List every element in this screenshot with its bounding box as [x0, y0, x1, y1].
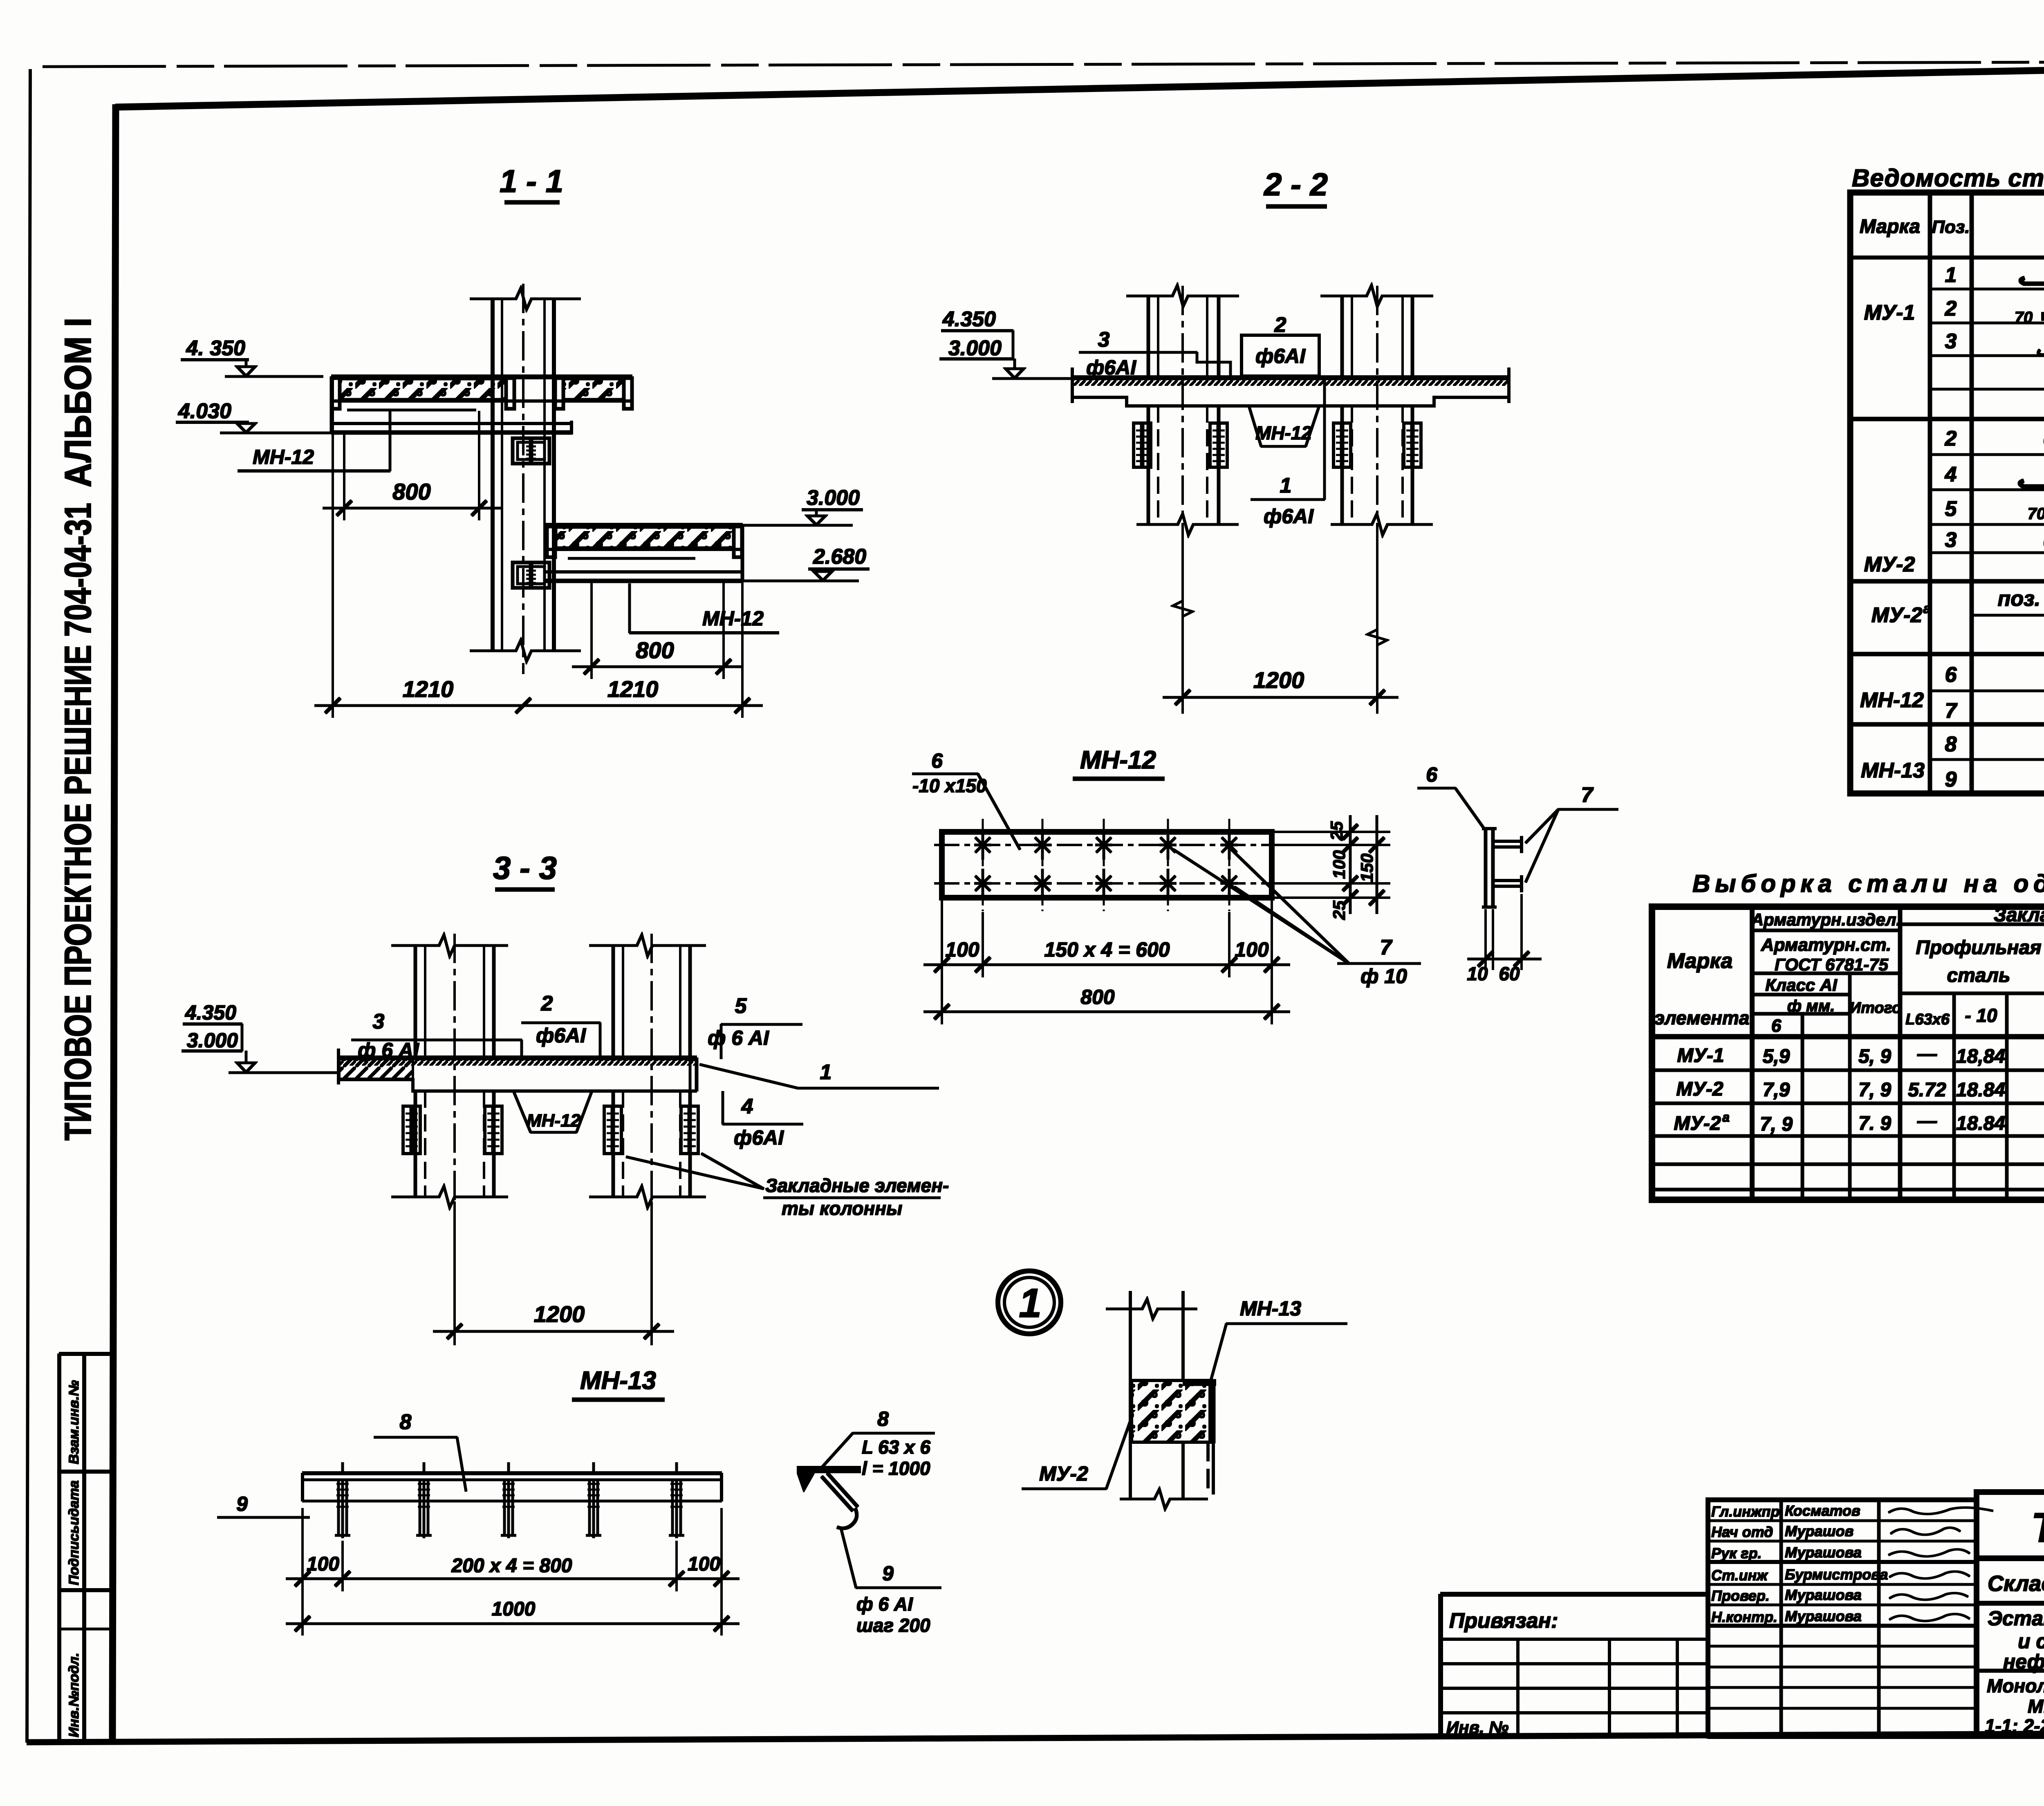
- svg-text:100: 100: [1235, 938, 1269, 961]
- data row lines: [1652, 1069, 2044, 1072]
- node detail column lines: [1129, 1291, 1132, 1499]
- svg-text:200 x 4 = 800: 200 x 4 = 800: [451, 1555, 572, 1577]
- left column above slab: [1147, 295, 1150, 378]
- horizontal header lines: [1900, 923, 2044, 926]
- svg-text:МУ-2: МУ-2: [1039, 1462, 1088, 1485]
- svg-text:МУ-2: МУ-2: [1676, 1078, 1723, 1100]
- svg-text:9: 9: [236, 1492, 248, 1515]
- anchor channels on column faces: [403, 1106, 698, 1154]
- main frame left line: [112, 105, 116, 1741]
- column centerlines: [454, 934, 455, 1345]
- svg-text:6: 6: [1771, 1016, 1782, 1036]
- svg-text:ф 10: ф 10: [1360, 965, 1407, 988]
- svg-text:Ст.инж: Ст.инж: [1711, 1567, 1768, 1584]
- lower slab end plates: [547, 527, 555, 557]
- svg-text:Взам.инв.№: Взам.инв.№: [66, 1380, 82, 1464]
- right column below slab: [1341, 406, 1344, 524]
- svg-text:7: 7: [1380, 936, 1393, 959]
- title block outline: [1974, 1492, 1979, 1736]
- object name band: [1977, 1601, 2044, 1605]
- right column above slab: [1341, 295, 1344, 378]
- anchor channels on column faces: [1134, 423, 1421, 467]
- svg-text:—: —: [1917, 1043, 1937, 1065]
- dim 1210 + 1210: [332, 378, 334, 717]
- svg-text:4.350: 4.350: [185, 1001, 236, 1024]
- vertical lines: [1750, 907, 1754, 1200]
- plate outline: [942, 832, 1272, 898]
- sheet left edge line: [27, 69, 30, 1742]
- svg-text:1200: 1200: [1253, 667, 1304, 693]
- side view bottom dims 10 / 60: [1485, 910, 1486, 970]
- svg-text:L63x6: L63x6: [1905, 1011, 1950, 1028]
- stud column axes: [983, 819, 1229, 911]
- svg-text:8: 8: [1945, 733, 1957, 756]
- svg-text:1210: 1210: [403, 676, 454, 702]
- sheet top edge line: [43, 61, 2044, 67]
- svg-text:7, 9: 7, 9: [1858, 1079, 1891, 1101]
- personnel table: [1708, 1500, 1977, 1736]
- svg-text:ГОСТ 6781-75: ГОСТ 6781-75: [1775, 955, 1889, 974]
- lower slab concrete hatch: [556, 527, 734, 548]
- hatch ticks on hooks: [337, 1484, 682, 1507]
- column top break lines: [392, 935, 508, 956]
- dim 1200: [454, 1202, 455, 1345]
- svg-text:3: 3: [1945, 528, 1957, 552]
- column outline: [491, 298, 494, 651]
- svg-text:800: 800: [392, 479, 430, 504]
- svg-text:МУ-2: МУ-2: [1674, 1113, 1721, 1134]
- anchor studs top row: [975, 831, 1237, 859]
- svg-text:Рук гр.: Рук гр.: [1711, 1545, 1762, 1562]
- МН-12 funnel callout: [1249, 406, 1261, 446]
- svg-text:МН-12: МН-12: [1080, 746, 1156, 774]
- svg-text:3: 3: [373, 1010, 385, 1033]
- svg-text:1210: 1210: [607, 676, 659, 702]
- svg-text:1-1; 2-2; 3-3. МН-12; МН-13: 1-1; 2-2; 3-3. МН-12; МН-13: [1985, 1715, 2044, 1737]
- svg-text:—: —: [1917, 1110, 1937, 1132]
- svg-text:5,9: 5,9: [1763, 1046, 1790, 1067]
- svg-text:а: а: [1923, 601, 1931, 616]
- svg-text:МН-12: МН-12: [1255, 422, 1312, 444]
- dim 1000: [302, 1591, 303, 1635]
- svg-text:2: 2: [1945, 427, 1957, 450]
- svg-text:1200: 1200: [534, 1301, 585, 1327]
- embedded anchor in column (upper): [513, 438, 549, 464]
- slab soffit with drops: [1072, 397, 1509, 406]
- svg-text:18,84: 18,84: [1956, 1046, 2005, 1067]
- svg-text:70: 70: [2015, 309, 2033, 327]
- svg-text:1: 1: [1945, 263, 1957, 287]
- left end concrete hatch: [339, 1059, 413, 1079]
- right vertical dims 25/100/25 and 150: [1273, 831, 1390, 833]
- svg-text:ты колонны: ты колонны: [782, 1198, 902, 1219]
- svg-text:60: 60: [1499, 963, 1520, 984]
- svg-text:3 - 3: 3 - 3: [493, 850, 557, 886]
- dim 800: [941, 977, 943, 1024]
- svg-text:МУ-2: МУ-2: [1871, 603, 1923, 627]
- data rows: [1674, 1043, 2044, 1135]
- anchor studs bottom row: [975, 869, 1237, 898]
- svg-text:Выборка стали на один элем: Выборка стали на один элемент, кг.: [1692, 870, 2044, 897]
- svg-text:4. 350: 4. 350: [186, 336, 245, 360]
- svg-text:2: 2: [541, 992, 553, 1015]
- svg-text:9: 9: [1945, 768, 1957, 791]
- svg-text:1 - 1: 1 - 1: [500, 163, 563, 199]
- column bottom break lines: [1137, 514, 1238, 535]
- svg-text:Гл.инжпр: Гл.инжпр: [1711, 1503, 1780, 1520]
- svg-text:4: 4: [741, 1095, 753, 1118]
- svg-text:МН-12: МН-12: [253, 446, 314, 468]
- extension lines below columns: [1182, 540, 1183, 713]
- svg-text:3.000: 3.000: [948, 336, 1002, 360]
- svg-text:4.030: 4.030: [178, 399, 231, 423]
- svg-text:МН-12: МН-12: [702, 607, 764, 630]
- svg-text:Инв. №: Инв. №: [1446, 1718, 1508, 1737]
- left column below slab: [1147, 406, 1150, 524]
- svg-text:5, 9: 5, 9: [1858, 1046, 1891, 1067]
- svg-text:МУ-2: МУ-2: [1864, 553, 1915, 576]
- column top break lines: [1127, 285, 1239, 307]
- dims 100 / 200x4=800 / 100: [302, 1508, 303, 1591]
- svg-text:2 - 2: 2 - 2: [1263, 166, 1328, 202]
- main frame top line: [116, 64, 2044, 107]
- stub right of column: [554, 422, 572, 425]
- svg-text:ф6АI: ф6АI: [1264, 505, 1314, 528]
- left column above slab: [414, 945, 417, 1058]
- svg-text:Бурмистрова: Бурмистрова: [1785, 1566, 1888, 1583]
- svg-text:10: 10: [1467, 963, 1488, 984]
- svg-text:7, 9: 7, 9: [1760, 1114, 1793, 1135]
- svg-text:Косматов: Косматов: [1785, 1502, 1860, 1519]
- svg-text:Нач отд: Нач отд: [1711, 1524, 1773, 1540]
- svg-text:Итого: Итого: [1850, 999, 1901, 1017]
- svg-text:ф 6 АI: ф 6 АI: [358, 1039, 419, 1062]
- svg-text:и светлых: и светлых: [2018, 1630, 2044, 1653]
- svg-text:2.680: 2.680: [813, 545, 866, 569]
- svg-text:100: 100: [945, 938, 979, 961]
- upper slab top line: [332, 375, 632, 379]
- svg-text:1000: 1000: [492, 1598, 536, 1620]
- upper slab concrete hatch: [340, 379, 506, 399]
- side view plate: [1484, 829, 1487, 907]
- svg-text:Мурашова: Мурашова: [1785, 1586, 1862, 1603]
- privyazan block: [1441, 1592, 1708, 1596]
- svg-text:ф6АI: ф6АI: [536, 1024, 586, 1047]
- svg-text:25: 25: [1327, 821, 1346, 841]
- svg-text:6: 6: [1945, 663, 1957, 687]
- column centerlines: [1182, 286, 1183, 540]
- slab left end tick: [337, 1049, 340, 1084]
- upper slab soffit lines: [332, 400, 632, 402]
- svg-text:Мурашов: Мурашов: [1785, 1523, 1853, 1539]
- svg-text:5: 5: [1945, 497, 1957, 521]
- header texts: [1654, 904, 2044, 1038]
- svg-text:Профильная: Профильная: [1916, 937, 2041, 959]
- TP number box: [1977, 1492, 2044, 1558]
- svg-text:ф 6 АI: ф 6 АI: [708, 1026, 769, 1049]
- svg-text:4: 4: [1945, 463, 1957, 486]
- svg-text:l = 1000: l = 1000: [862, 1458, 930, 1479]
- svg-text:6: 6: [1426, 763, 1438, 786]
- svg-text:МН-13: МН-13: [1861, 759, 1925, 782]
- svg-text:150 x 4 = 600: 150 x 4 = 600: [1044, 938, 1170, 961]
- dims 100 / 150x4=600 / 100: [941, 899, 943, 977]
- svg-text:4.350: 4.350: [942, 307, 996, 331]
- svg-text:7,9: 7,9: [1763, 1079, 1790, 1101]
- svg-text:Инв.№подл.: Инв.№подл.: [66, 1653, 82, 1737]
- table grid: [1850, 193, 2044, 793]
- svg-text:сталь: сталь: [1947, 965, 2010, 986]
- svg-text:2: 2: [1945, 297, 1957, 320]
- svg-text:шаг 200: шаг 200: [856, 1615, 930, 1636]
- angle vertical leg below: [1207, 1442, 1209, 1494]
- svg-text:100: 100: [1329, 850, 1349, 879]
- hook bars: [335, 1463, 684, 1538]
- row axis lines: [935, 844, 1279, 846]
- МН-12 funnel callout: [513, 1091, 531, 1132]
- svg-text:70: 70: [2028, 505, 2044, 523]
- position digits: [1945, 263, 1958, 791]
- svg-text:1: 1: [820, 1060, 832, 1084]
- svg-text:3.000: 3.000: [807, 486, 860, 510]
- svg-text:Мурашова: Мурашова: [1785, 1608, 1862, 1625]
- svg-text:5.72: 5.72: [1908, 1079, 1946, 1101]
- svg-text:6: 6: [931, 749, 943, 772]
- slab soffit with drop: [338, 1080, 697, 1091]
- svg-text:Провер.: Провер.: [1711, 1587, 1770, 1604]
- right column below slab: [612, 1091, 615, 1197]
- svg-text:ТИПОВОЕ ПРОЕКТНОЕ РЕШЕНИЕ 704-: ТИПОВОЕ ПРОЕКТНОЕ РЕШЕНИЕ 704-04-31: [57, 503, 99, 1141]
- svg-text:3: 3: [1098, 328, 1110, 352]
- svg-text:МУ-1: МУ-1: [1864, 301, 1915, 325]
- svg-text:элемента: элемента: [1654, 1007, 1750, 1028]
- side view hooks: [1493, 836, 1522, 853]
- svg-text:9: 9: [882, 1562, 894, 1585]
- node 1 circle marker: [998, 1271, 1061, 1334]
- svg-text:7. 9: 7. 9: [1858, 1113, 1891, 1134]
- slab thin hatch band: [1072, 379, 1509, 385]
- svg-text:Поз.: Поз.: [1932, 217, 1970, 237]
- svg-text:ф 6 АI: ф 6 АI: [856, 1593, 913, 1615]
- svg-text:Класс АI: Класс АI: [1765, 975, 1838, 995]
- svg-text:ф6АI: ф6АI: [1086, 356, 1136, 379]
- svg-text:МН-13: МН-13: [580, 1367, 656, 1395]
- svg-text:Марка: Марка: [1667, 949, 1733, 973]
- svg-text:100: 100: [688, 1553, 720, 1575]
- svg-text:МН-12: МН-12: [1860, 688, 1924, 712]
- svg-text:АЛЬБОМ I: АЛЬБОМ I: [57, 318, 99, 487]
- svg-text:Эстакады для темных: Эстакады для темных: [1988, 1607, 2044, 1630]
- svg-text:3: 3: [1945, 329, 1957, 353]
- svg-text:Монолитные участки МУ-1;: Монолитные участки МУ-1;: [1987, 1675, 2044, 1696]
- svg-text:МУ-2; МУ-2° Сечения: МУ-2; МУ-2° Сечения: [2028, 1696, 2044, 1717]
- svg-text:поз. 2, 3, 4, 5 см. МУ-2: поз. 2, 3, 4, 5 см. МУ-2: [1998, 587, 2044, 611]
- svg-text:L 63 x 6: L 63 x 6: [862, 1436, 930, 1458]
- lower slab soffit lines: [546, 548, 742, 551]
- svg-text:Привязан:: Привязан:: [1449, 1609, 1558, 1633]
- svg-text:7: 7: [1945, 699, 1958, 723]
- svg-text:МН-13: МН-13: [1240, 1297, 1301, 1320]
- svg-text:-10 x150: -10 x150: [912, 775, 987, 796]
- svg-text:8: 8: [877, 1407, 889, 1430]
- svg-text:Марка: Марка: [1860, 216, 1920, 238]
- block bottom line: [1130, 1441, 1213, 1443]
- svg-text:Н.контр.: Н.контр.: [1711, 1609, 1777, 1625]
- svg-text:ф6АI: ф6АI: [1255, 345, 1306, 367]
- svg-text:800: 800: [1080, 986, 1115, 1008]
- svg-text:800: 800: [636, 637, 674, 663]
- svg-text:1: 1: [1280, 474, 1292, 497]
- svg-text:Арматурн.издел.: Арматурн.издел.: [1751, 910, 1901, 929]
- lower slab top line: [546, 523, 742, 527]
- svg-text:МН-12: МН-12: [527, 1111, 581, 1131]
- slab top line: [1072, 376, 1509, 380]
- column top break line: [470, 288, 580, 309]
- column centerline: [522, 284, 524, 674]
- svg-text:25: 25: [1329, 901, 1349, 920]
- svg-text:Склад нефтепродуктов емк. 1тыс: Склад нефтепродуктов емк. 1тыс.куб.м.: [1988, 1571, 2044, 1596]
- svg-text:100: 100: [307, 1553, 339, 1575]
- dim 800 upper: [343, 433, 345, 520]
- column bottom break lines: [392, 1186, 508, 1208]
- svg-text:150: 150: [1357, 854, 1376, 882]
- МН-13 angle section: [1183, 1380, 1216, 1386]
- svg-text:5: 5: [735, 994, 747, 1018]
- svg-text:Ведомость стержней на один: Ведомость стержней на один элемент: [1852, 164, 2044, 192]
- svg-text:- 10: - 10: [1965, 1005, 1997, 1026]
- svg-text:ф6АI: ф6АI: [734, 1126, 784, 1149]
- sheet name box: [1977, 1669, 2044, 1672]
- slab end ticks: [1071, 368, 1074, 403]
- svg-text:1: 1: [1019, 1280, 1042, 1326]
- mark column labels: [1860, 301, 1931, 782]
- dim 800 lower: [591, 582, 592, 679]
- side view angle with hook: [797, 1466, 861, 1473]
- svg-text:7: 7: [1581, 783, 1594, 807]
- upper slab end plates: [332, 378, 340, 409]
- svg-text:МУ-1: МУ-1: [1677, 1045, 1724, 1067]
- svg-text:Закладные элемен-: Закладные элемен-: [765, 1175, 949, 1196]
- top break line: [1106, 1299, 1197, 1319]
- embedded anchor in column (lower): [513, 562, 549, 588]
- bottom break line: [1120, 1489, 1208, 1509]
- slab top line: [338, 1056, 697, 1060]
- svg-text:18.84: 18.84: [1956, 1113, 2005, 1134]
- slab right end: [689, 1058, 691, 1091]
- header texts: [1860, 205, 2044, 247]
- svg-text:8: 8: [400, 1410, 412, 1434]
- right column above slab: [612, 945, 615, 1058]
- svg-text:2: 2: [1274, 313, 1286, 337]
- left stamp column boxes: [58, 1354, 61, 1741]
- svg-text:Закладные: Закладные: [1994, 904, 2044, 926]
- svg-text:нефтепродуктов: нефтепродуктов: [2003, 1650, 2044, 1673]
- svg-text:Подписьидата: Подписьидата: [66, 1480, 82, 1585]
- left column below slab: [414, 1091, 417, 1197]
- slab thin hatch band: [338, 1059, 697, 1065]
- column bottom break line: [470, 640, 580, 661]
- angle bar: [303, 1472, 722, 1475]
- svg-text:ТП 704-04 - 31 –АС: ТП 704-04 - 31 –АС: [2031, 1504, 2044, 1551]
- monolithic hatched block: [1132, 1380, 1210, 1442]
- svg-text:ф мм.: ф мм.: [1787, 997, 1835, 1015]
- svg-text:Мурашова: Мурашова: [1785, 1544, 1862, 1561]
- svg-text:а: а: [1722, 1110, 1730, 1125]
- dim 1200: [1163, 697, 1398, 699]
- svg-text:18.84: 18.84: [1956, 1079, 2005, 1101]
- main frame bottom line: [27, 1732, 2044, 1742]
- svg-text:3.000: 3.000: [187, 1029, 238, 1052]
- svg-text:Арматурн.ст.: Арматурн.ст.: [1761, 935, 1892, 955]
- signatures: [1889, 1508, 1993, 1621]
